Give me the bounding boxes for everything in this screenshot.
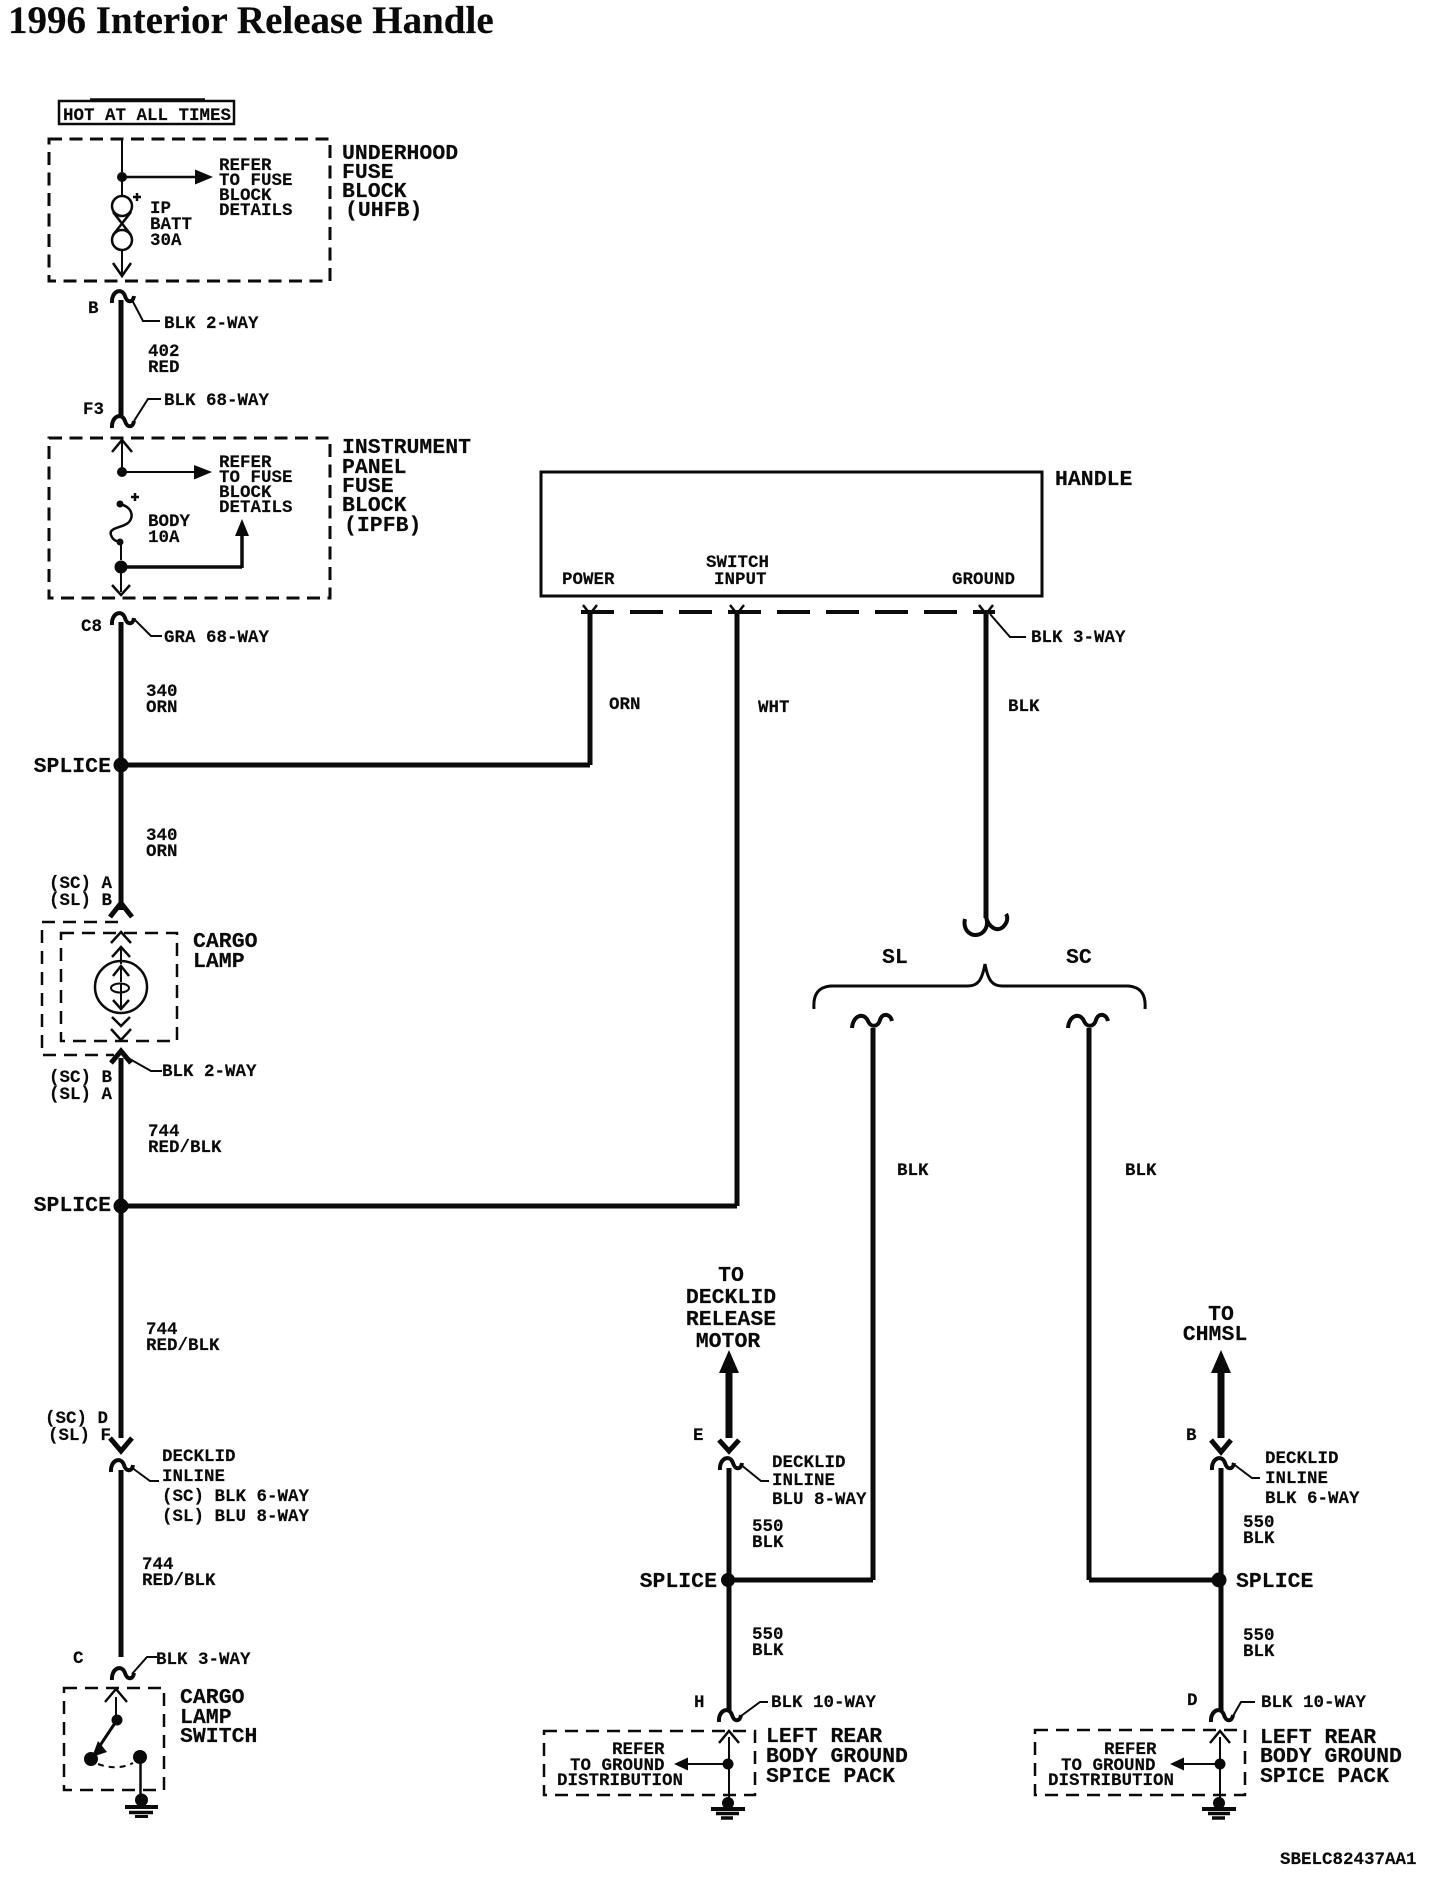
svg-text:BLK: BLK: [752, 1533, 784, 1553]
svg-text:(SL) F: (SL) F: [48, 1426, 111, 1446]
svg-text:DETAILS: DETAILS: [219, 498, 293, 518]
svg-text:BLK 3-WAY: BLK 3-WAY: [1031, 628, 1126, 648]
svg-text:SPICE PACK: SPICE PACK: [1260, 1765, 1389, 1789]
svg-text:E: E: [693, 1426, 704, 1446]
svg-text:GROUND: GROUND: [952, 570, 1015, 590]
svg-text:SPLICE: SPLICE: [1236, 1570, 1314, 1594]
svg-text:SPLICE: SPLICE: [640, 1570, 718, 1594]
svg-text:DECKLID: DECKLID: [686, 1286, 776, 1310]
svg-text:BLK: BLK: [897, 1161, 929, 1181]
svg-text:DISTRIBUTION: DISTRIBUTION: [1048, 1771, 1174, 1791]
svg-text:ORN: ORN: [146, 698, 178, 718]
svg-text:BLK 10-WAY: BLK 10-WAY: [771, 1693, 877, 1713]
svg-text:10A: 10A: [148, 528, 180, 548]
svg-text:BLK: BLK: [1243, 1529, 1275, 1549]
svg-text:BLK 6-WAY: BLK 6-WAY: [1265, 1489, 1360, 1509]
svg-text:D: D: [1187, 1691, 1198, 1711]
svg-text:DECKLID: DECKLID: [1265, 1449, 1339, 1469]
svg-text:B: B: [1186, 1426, 1197, 1446]
svg-text:BLK 2-WAY: BLK 2-WAY: [164, 314, 259, 334]
svg-text:MOTOR: MOTOR: [696, 1330, 761, 1354]
svg-text:30A: 30A: [150, 231, 182, 251]
svg-text:ORN: ORN: [609, 695, 641, 715]
svg-text:DECKLID: DECKLID: [772, 1453, 846, 1473]
svg-text:BLK: BLK: [1125, 1161, 1157, 1181]
svg-text:DETAILS: DETAILS: [219, 201, 293, 221]
svg-text:(UHFB): (UHFB): [345, 199, 422, 223]
svg-text:(SL) BLU 8-WAY: (SL) BLU 8-WAY: [162, 1507, 310, 1527]
svg-text:(SL) B: (SL) B: [49, 891, 113, 911]
svg-text:BLU 8-WAY: BLU 8-WAY: [772, 1490, 867, 1510]
svg-text:HOT AT ALL TIMES: HOT AT ALL TIMES: [63, 106, 231, 126]
svg-text:H: H: [694, 1693, 705, 1713]
svg-text:B: B: [88, 299, 99, 319]
svg-text:RED/BLK: RED/BLK: [142, 1571, 216, 1591]
svg-text:INLINE: INLINE: [1265, 1469, 1328, 1489]
svg-text:C8: C8: [81, 617, 102, 637]
svg-text:BLK: BLK: [752, 1641, 784, 1661]
svg-text:RED/BLK: RED/BLK: [146, 1336, 220, 1356]
svg-text:INLINE: INLINE: [162, 1467, 225, 1487]
svg-text:HANDLE: HANDLE: [1055, 468, 1133, 492]
svg-text:BLK 2-WAY: BLK 2-WAY: [162, 1062, 257, 1082]
svg-text:BLK 68-WAY: BLK 68-WAY: [164, 391, 270, 411]
svg-text:SBELC82437AA1: SBELC82437AA1: [1280, 1850, 1417, 1870]
svg-text:ORN: ORN: [146, 842, 178, 862]
svg-text:C: C: [73, 1649, 84, 1669]
svg-text:LAMP: LAMP: [193, 950, 245, 974]
svg-text:TO: TO: [718, 1264, 744, 1288]
svg-text:RELEASE: RELEASE: [686, 1308, 776, 1332]
svg-text:WHT: WHT: [758, 698, 790, 718]
svg-text:(SL) A: (SL) A: [49, 1085, 113, 1105]
svg-text:INPUT: INPUT: [714, 570, 767, 590]
svg-text:SWITCH: SWITCH: [180, 1725, 257, 1749]
svg-text:GRA 68-WAY: GRA 68-WAY: [164, 628, 270, 648]
svg-text:SPLICE: SPLICE: [34, 1194, 112, 1218]
svg-text:POWER: POWER: [562, 570, 615, 590]
svg-text:(IPFB): (IPFB): [344, 514, 421, 538]
svg-text:CHMSL: CHMSL: [1183, 1323, 1248, 1347]
svg-text:BLK: BLK: [1008, 697, 1040, 717]
svg-text:SC: SC: [1066, 946, 1092, 970]
svg-text:(SC) BLK 6-WAY: (SC) BLK 6-WAY: [162, 1487, 310, 1507]
svg-text:F3: F3: [83, 400, 104, 420]
svg-text:BLK 3-WAY: BLK 3-WAY: [156, 1650, 251, 1670]
svg-text:INLINE: INLINE: [772, 1471, 835, 1491]
svg-text:BLK: BLK: [1243, 1642, 1275, 1662]
svg-text:SPICE PACK: SPICE PACK: [766, 1765, 895, 1789]
svg-text:RED: RED: [148, 358, 180, 378]
svg-text:DISTRIBUTION: DISTRIBUTION: [557, 1771, 683, 1791]
svg-text:DECKLID: DECKLID: [162, 1447, 236, 1467]
svg-text:RED/BLK: RED/BLK: [148, 1138, 222, 1158]
svg-text:1996 Interior Release Handle: 1996 Interior Release Handle: [8, 0, 494, 42]
svg-text:BLK 10-WAY: BLK 10-WAY: [1261, 1693, 1367, 1713]
svg-text:SPLICE: SPLICE: [34, 755, 112, 779]
svg-text:SL: SL: [882, 946, 908, 970]
